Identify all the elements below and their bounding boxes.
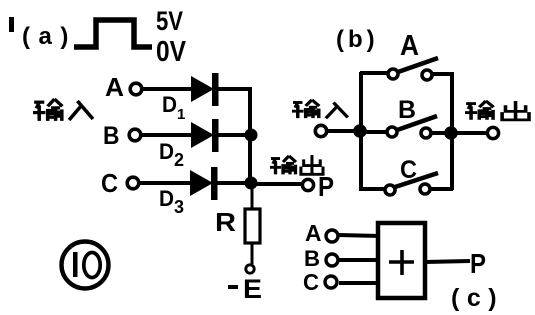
figure index mark 1 <box>9 17 14 32</box>
svg-text:B: B <box>304 246 320 271</box>
svg-text:0V: 0V <box>156 36 187 68</box>
svg-text:A: A <box>105 72 124 102</box>
pulse waveform <box>74 20 152 47</box>
terminal -E <box>246 265 254 273</box>
junction node C <box>245 177 258 190</box>
wire to output P <box>251 182 302 186</box>
right bus junction <box>444 126 458 140</box>
svg-text:E: E <box>243 274 262 304</box>
switch C <box>385 173 438 195</box>
wire left bus to switch B <box>361 130 387 134</box>
terminal B (block) <box>326 254 338 266</box>
svg-text:(c): (c) <box>451 284 504 312</box>
wire D3 to bus <box>217 181 252 185</box>
svg-text:(a): (a) <box>22 23 77 50</box>
left bus junction <box>353 124 367 138</box>
input C terminal <box>127 177 139 189</box>
wire switch B to right bus <box>432 131 448 135</box>
input terminal (b) <box>315 125 326 136</box>
output wire (block) <box>425 261 470 262</box>
switch A <box>388 58 438 80</box>
wire B to block <box>339 258 380 262</box>
label -E <box>228 274 262 304</box>
wire D1 to bus <box>218 87 252 91</box>
input A terminal <box>130 83 142 95</box>
wire B to D2 <box>141 133 192 137</box>
terminal C (block) <box>325 276 337 288</box>
figure number 10 (circled) <box>62 242 109 289</box>
right bus wire <box>450 72 454 190</box>
label 输入 (input, diode circuit) <box>33 99 93 121</box>
wire switch C to right bus <box>431 187 453 191</box>
svg-text:B: B <box>398 96 416 124</box>
switch B <box>387 116 437 138</box>
wire A to block <box>338 235 380 236</box>
svg-text:B: B <box>103 122 120 150</box>
label 输出 (output, switch circuit) <box>465 101 529 120</box>
wire C to D3 <box>139 181 191 185</box>
svg-text:D: D <box>162 92 177 117</box>
wire right bus to output (b) <box>451 131 488 135</box>
svg-text:A: A <box>305 220 322 246</box>
junction node B <box>245 129 258 142</box>
wire C to block <box>339 281 380 285</box>
svg-text:D: D <box>159 139 174 164</box>
terminal A (block) <box>326 230 338 242</box>
svg-text:A: A <box>400 30 419 62</box>
input B terminal <box>129 129 141 141</box>
wire resistor to -E terminal <box>251 243 254 264</box>
wire left bus to switch A <box>360 71 388 75</box>
svg-text:(b): (b) <box>336 26 379 53</box>
OR block U1 <box>378 223 425 298</box>
svg-text:1: 1 <box>177 106 185 123</box>
left bus wire <box>359 72 363 191</box>
svg-text:C: C <box>101 168 118 198</box>
svg-text:R: R <box>215 207 236 237</box>
label 输出 (output, diode circuit) <box>270 155 323 174</box>
svg-text:D: D <box>159 186 174 211</box>
svg-text:5V: 5V <box>156 6 183 36</box>
svg-text:P: P <box>318 171 334 202</box>
wire D2 to bus <box>218 133 252 137</box>
svg-text:3: 3 <box>174 197 184 217</box>
wire A to D1 <box>142 87 192 91</box>
svg-text:P: P <box>470 248 486 279</box>
output terminal (b) <box>487 127 498 138</box>
svg-text:C: C <box>303 269 319 295</box>
wire input to left bus <box>327 129 360 133</box>
bus wire (right vertical) <box>248 87 252 185</box>
plus symbol <box>389 250 414 275</box>
wire left bus to switch C <box>360 187 385 191</box>
wire switch A to right bus <box>433 72 453 76</box>
diode D3 <box>190 167 218 200</box>
svg-text:2: 2 <box>174 150 184 170</box>
wire junction to resistor <box>251 183 254 210</box>
diode D2 <box>191 119 219 152</box>
output P terminal <box>302 179 313 190</box>
label 输入 (input, switch circuit) <box>292 100 348 118</box>
resistor R <box>245 209 260 243</box>
diode D1 <box>191 73 219 106</box>
